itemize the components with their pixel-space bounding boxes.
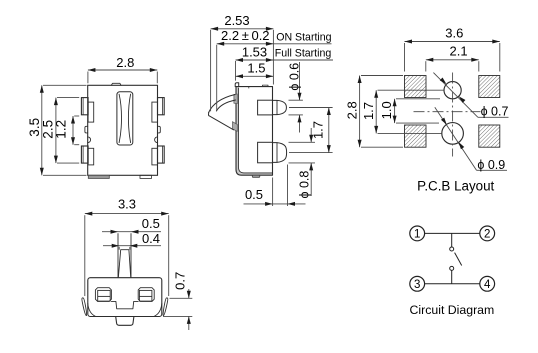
svg-text:ON Starting: ON Starting [276,31,331,43]
front view: left corner tab [82,298,87,316]
contact lower [450,266,454,270]
side view: lower pin [258,142,287,163]
svg-text:1.7: 1.7 [311,121,326,139]
side view: top edge notch [263,85,269,87]
front view: right corner seam [154,304,162,317]
svg-text:0.5: 0.5 [142,216,160,231]
front view: switch body outline [88,278,162,317]
svg-text:ϕ 0.9: ϕ 0.9 [477,158,505,172]
top view: bottom solder tab right [140,175,152,178]
top view: right terminal tab lower [152,146,164,165]
PCB vertical centerline [452,73,454,157]
terminal 3 [410,276,425,291]
label P.C.B Layout [417,179,494,194]
dimension 2.53 (lever tip travel) [211,13,274,111]
dimension 1.5 (body depth) [236,61,274,79]
dimension 2.8 (PCB overall height) [345,76,403,148]
side view: lever upper mount [234,94,237,104]
dimension 0.7 (front view tab height) [163,272,192,330]
front view: right window [138,288,154,302]
PCB hole upper (φ0.7) [444,82,461,99]
dimension 2.8 (top view width) [88,55,157,83]
top view: right semicircle recess [155,137,158,143]
terminal 4 [480,276,495,291]
terminal 2 [480,226,495,241]
top view: right middle notch [158,126,161,133]
dimension 1.7 (PCB hole pitch) [361,90,444,133]
front view: left corner seam [88,304,96,317]
top view: left terminal tab lower [81,146,93,165]
dimension 2.1 (PCB pad gap) [426,44,479,72]
svg-text:2: 2 [484,229,490,241]
svg-text:ϕ 0.6: ϕ 0.6 [287,63,301,91]
svg-text:ϕ 0.8: ϕ 0.8 [297,171,311,199]
svg-text:2.2 ± 0.2: 2.2 ± 0.2 [221,28,269,43]
svg-text:4: 4 [484,279,491,291]
svg-text:0.5: 0.5 [245,187,263,202]
svg-text:0.4: 0.4 [142,231,160,246]
side view: cover top tab [235,83,239,87]
dimension φ0.8 (lower pin diameter) [289,128,316,199]
PCB hole lower (φ0.9) [442,123,464,145]
side view: upper pin [258,100,287,115]
front view: left window [95,288,111,302]
dimension 1.0 (PCB hole gap) [379,99,440,123]
svg-text:3.3: 3.3 [118,197,136,212]
svg-text:1.5: 1.5 [247,61,265,76]
svg-text:3.6: 3.6 [445,26,463,41]
contact upper [450,247,454,251]
top view: left middle notch [85,126,88,133]
side view: body outline [236,87,273,176]
switch lever (open) [455,253,462,266]
dimension 2.5 (top view tab span) [40,98,79,164]
PCB pad top-left [405,76,427,98]
svg-text:1.7: 1.7 [361,102,376,120]
side view: lever arm [209,95,236,130]
wire terminal1 to terminal2 [425,232,480,234]
dimension 0.4 (stem tip width) [103,231,161,250]
PCB horizontal centerline [414,111,481,113]
dimension 1.53 (full starting position) [236,44,334,80]
PCB pad top-right [479,76,500,98]
svg-text:2.53: 2.53 [224,13,249,28]
top view: switch body outline [88,83,158,175]
dimension φ0.6 (upper pin diameter) [287,62,303,133]
svg-text:1.2: 1.2 [54,120,69,139]
dimension 1.7 (pin pitch, side view) [289,108,333,153]
dimension 0.5 (stem width) [102,216,161,234]
dimension 3.5 (top view overall height) [27,85,87,175]
label Full Starting [275,47,332,59]
label Circuit Diagram [410,303,495,317]
dimension 3.6 (PCB overall width) [405,26,500,72]
svg-text:Circuit Diagram: Circuit Diagram [410,303,495,317]
top view: right terminal tab upper [152,98,164,123]
svg-text:3: 3 [414,279,420,291]
wire terminal3 to terminal4 [425,283,480,285]
label ON Starting [276,31,331,43]
leader φ0.9 (lower hole) [435,107,507,172]
terminal 1 [410,226,425,241]
svg-text:ϕ 0.7: ϕ 0.7 [481,105,509,119]
top view: left semicircle recess [88,137,91,143]
top view: left terminal tab upper [81,98,93,123]
svg-text:2.8: 2.8 [345,101,360,119]
dimension 1.2 (top view inner span) [54,116,80,145]
front view: center notch [111,301,138,308]
svg-text:2.1: 2.1 [450,44,468,59]
wire top stub to contact [451,233,453,247]
svg-text:Full Starting: Full Starting [275,47,332,59]
dimension 2.2±0.2 (ON starting position) [217,28,332,111]
top view: bottom solder tab left [88,175,109,178]
PCB pad bottom-right [479,125,500,147]
side view: lever lower mount [233,122,238,132]
svg-text:1.0: 1.0 [379,101,394,119]
leader φ0.7 (upper hole) [433,73,508,119]
front view: actuator stem [118,233,131,277]
side view: bottom foot [252,175,259,177]
PCB pad bottom-left [405,125,427,147]
svg-text:1: 1 [414,229,420,241]
front view: bottom boss [116,317,134,326]
top view: actuator lens [117,92,133,145]
svg-text:0.7: 0.7 [173,272,188,290]
dimension 3.3 (front view overall width) [85,197,169,296]
svg-text:2.8: 2.8 [116,55,134,70]
front view: right corner tab [163,298,168,316]
svg-text:1.53: 1.53 [242,44,267,59]
dimension 0.5 (pin protrusion) [244,165,306,207]
svg-text:P.C.B Layout: P.C.B Layout [417,179,494,194]
wire bottom stub [451,270,453,283]
